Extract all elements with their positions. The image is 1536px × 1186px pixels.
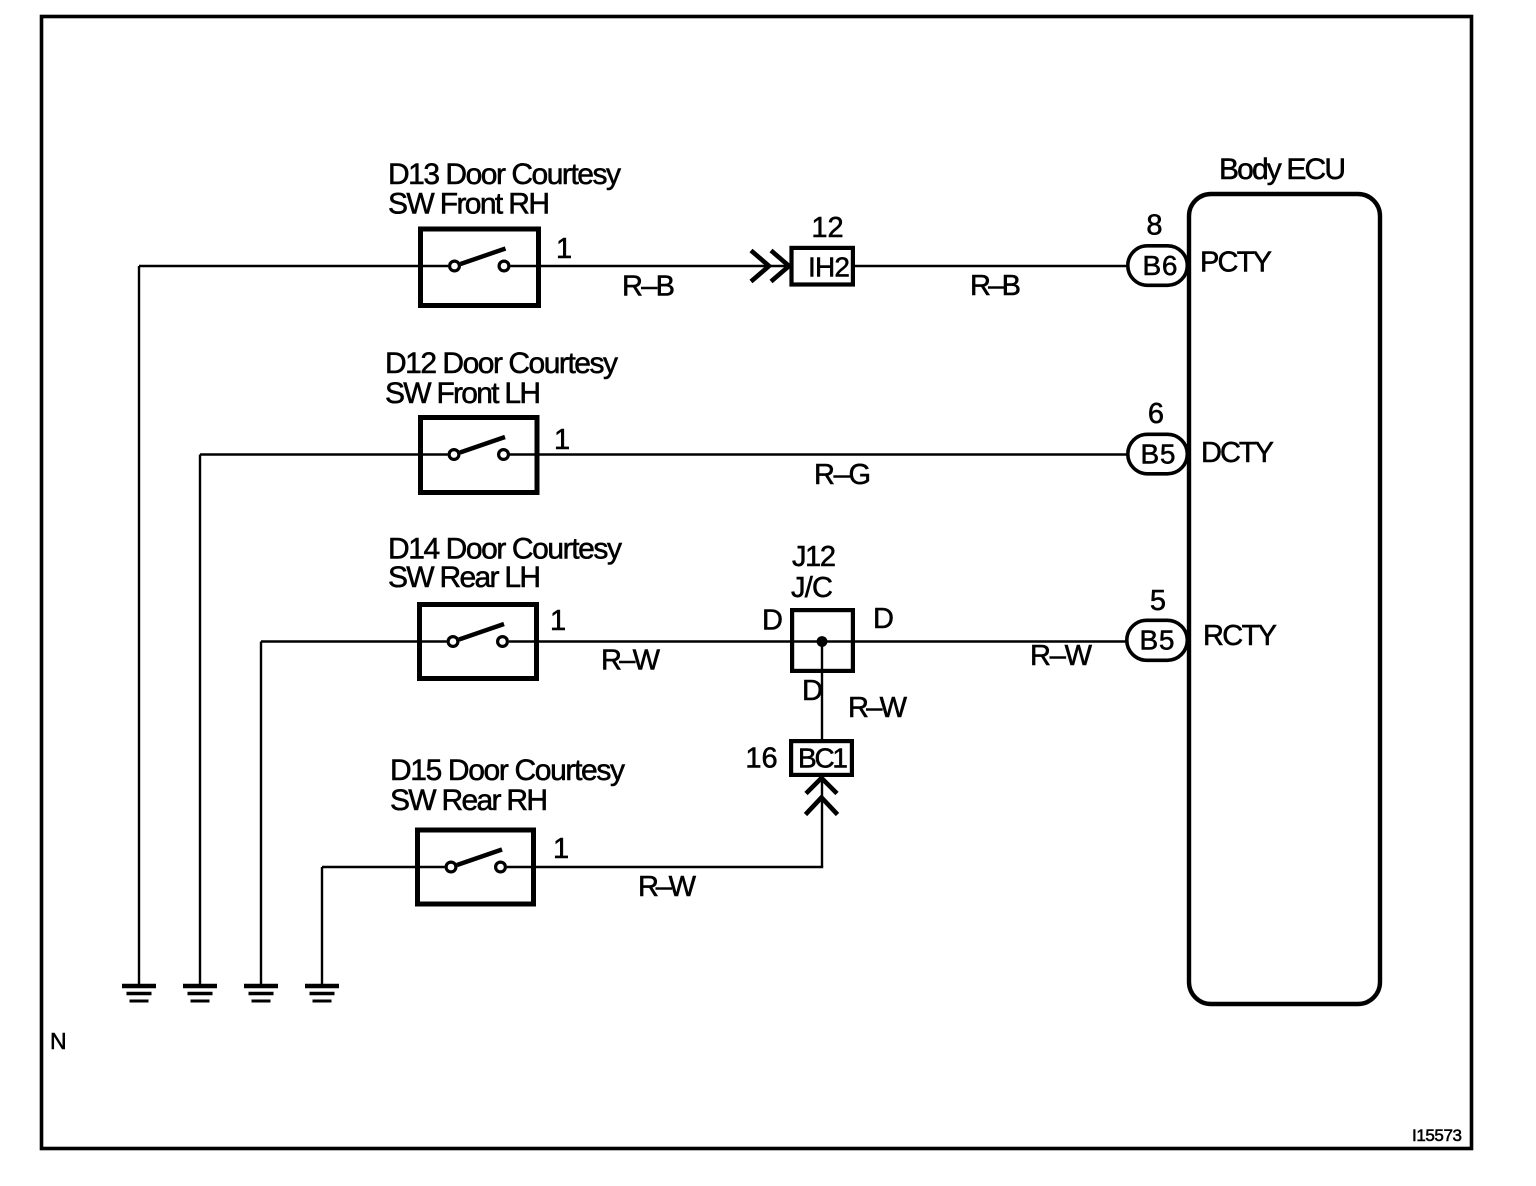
svg-text:5: 5 [1150, 585, 1166, 617]
wire row2 right [510, 453, 1129, 455]
svg-text:16: 16 [745, 743, 777, 775]
svg-text:D: D [873, 603, 894, 635]
switch D14 contacts [448, 637, 458, 647]
switch D15 box [418, 830, 534, 904]
wire D13 ground riser [138, 266, 140, 984]
switch D15 lever [457, 850, 502, 866]
svg-text:I15573: I15573 [1412, 1126, 1462, 1145]
svg-text:12: 12 [811, 212, 843, 244]
wire row3 right [509, 640, 1126, 642]
ground G4 [305, 986, 339, 1001]
ground G2 [183, 986, 217, 1001]
svg-text:8: 8 [1146, 210, 1162, 242]
svg-text:R–W: R–W [1030, 640, 1093, 672]
svg-text:SW Front LH: SW Front LH [385, 377, 541, 410]
switch D14 lever [459, 624, 504, 640]
switch D15 contacts [446, 862, 456, 872]
wire row1 right [855, 265, 1128, 267]
wire row4 right [507, 866, 823, 868]
svg-text:6: 6 [1148, 398, 1164, 430]
connector oval B5 row3 [1127, 620, 1188, 660]
svg-text:1: 1 [550, 605, 566, 637]
svg-text:DCTY: DCTY [1201, 437, 1274, 469]
switch D12 contacts [449, 450, 459, 460]
wire row1 left [139, 265, 448, 267]
svg-text:R–B: R–B [970, 270, 1021, 302]
svg-text:RCTY: RCTY [1203, 620, 1277, 652]
junction dot [817, 636, 828, 647]
junction J12 J/C box [792, 610, 853, 671]
svg-text:D13 Door Courtesy: D13 Door Courtesy [388, 158, 621, 191]
svg-text:D: D [762, 605, 783, 637]
svg-text:R–B: R–B [622, 271, 675, 303]
switch D14 box [420, 605, 537, 679]
svg-text:R–W: R–W [638, 871, 697, 903]
svg-text:J12: J12 [792, 541, 836, 573]
connector oval B5 row2 [1128, 434, 1188, 474]
svg-text:R–W: R–W [601, 645, 661, 677]
svg-text:1: 1 [554, 424, 570, 456]
svg-text:1: 1 [556, 233, 572, 265]
svg-text:PCTY: PCTY [1200, 247, 1272, 279]
wire D12 ground riser [199, 455, 201, 985]
svg-text:D15 Door Courtesy: D15 Door Courtesy [390, 754, 625, 787]
svg-text:B5: B5 [1140, 625, 1175, 656]
wire riser J/C to BC1 to row4 [821, 642, 823, 868]
connector IH2 [792, 248, 853, 285]
ground G3 [244, 986, 278, 1001]
svg-text:J/C: J/C [791, 572, 833, 604]
svg-text:R–G: R–G [814, 459, 871, 491]
svg-text:B5: B5 [1141, 439, 1176, 470]
connector oval B6 [1128, 246, 1188, 285]
svg-text:IH2: IH2 [808, 252, 850, 283]
wire row4 left [322, 866, 445, 868]
svg-text:1: 1 [553, 833, 569, 865]
wire D14 ground riser [260, 642, 262, 985]
switch D12 lever [460, 437, 505, 453]
switch D13 contacts [450, 261, 460, 271]
svg-text:SW Rear RH: SW Rear RH [390, 784, 548, 817]
svg-text:D: D [802, 675, 823, 707]
svg-text:R–W: R–W [848, 692, 908, 724]
switch D13 lever [461, 249, 506, 265]
wire row2 left [200, 453, 448, 455]
chevron pair BC1 (up) [806, 778, 838, 815]
svg-text:BC1: BC1 [798, 743, 848, 774]
connector BC1 [791, 741, 852, 775]
svg-text:B6: B6 [1143, 250, 1178, 281]
svg-text:SW Rear LH: SW Rear LH [388, 561, 541, 594]
switch D12 box [421, 418, 538, 493]
switch D13 box [421, 229, 539, 306]
wire row1 mid [511, 265, 790, 267]
svg-text:SW Front RH: SW Front RH [388, 188, 550, 221]
wire row3 left [261, 640, 447, 642]
svg-text:Body ECU: Body ECU [1219, 153, 1346, 186]
svg-text:N: N [50, 1028, 67, 1054]
svg-text:D12 Door Courtesy: D12 Door Courtesy [385, 347, 618, 380]
Body ECU box U1 [1189, 194, 1380, 1004]
ground G1 [122, 986, 156, 1001]
chevron pair row1 [751, 251, 789, 282]
wire D15 ground riser [321, 867, 323, 984]
